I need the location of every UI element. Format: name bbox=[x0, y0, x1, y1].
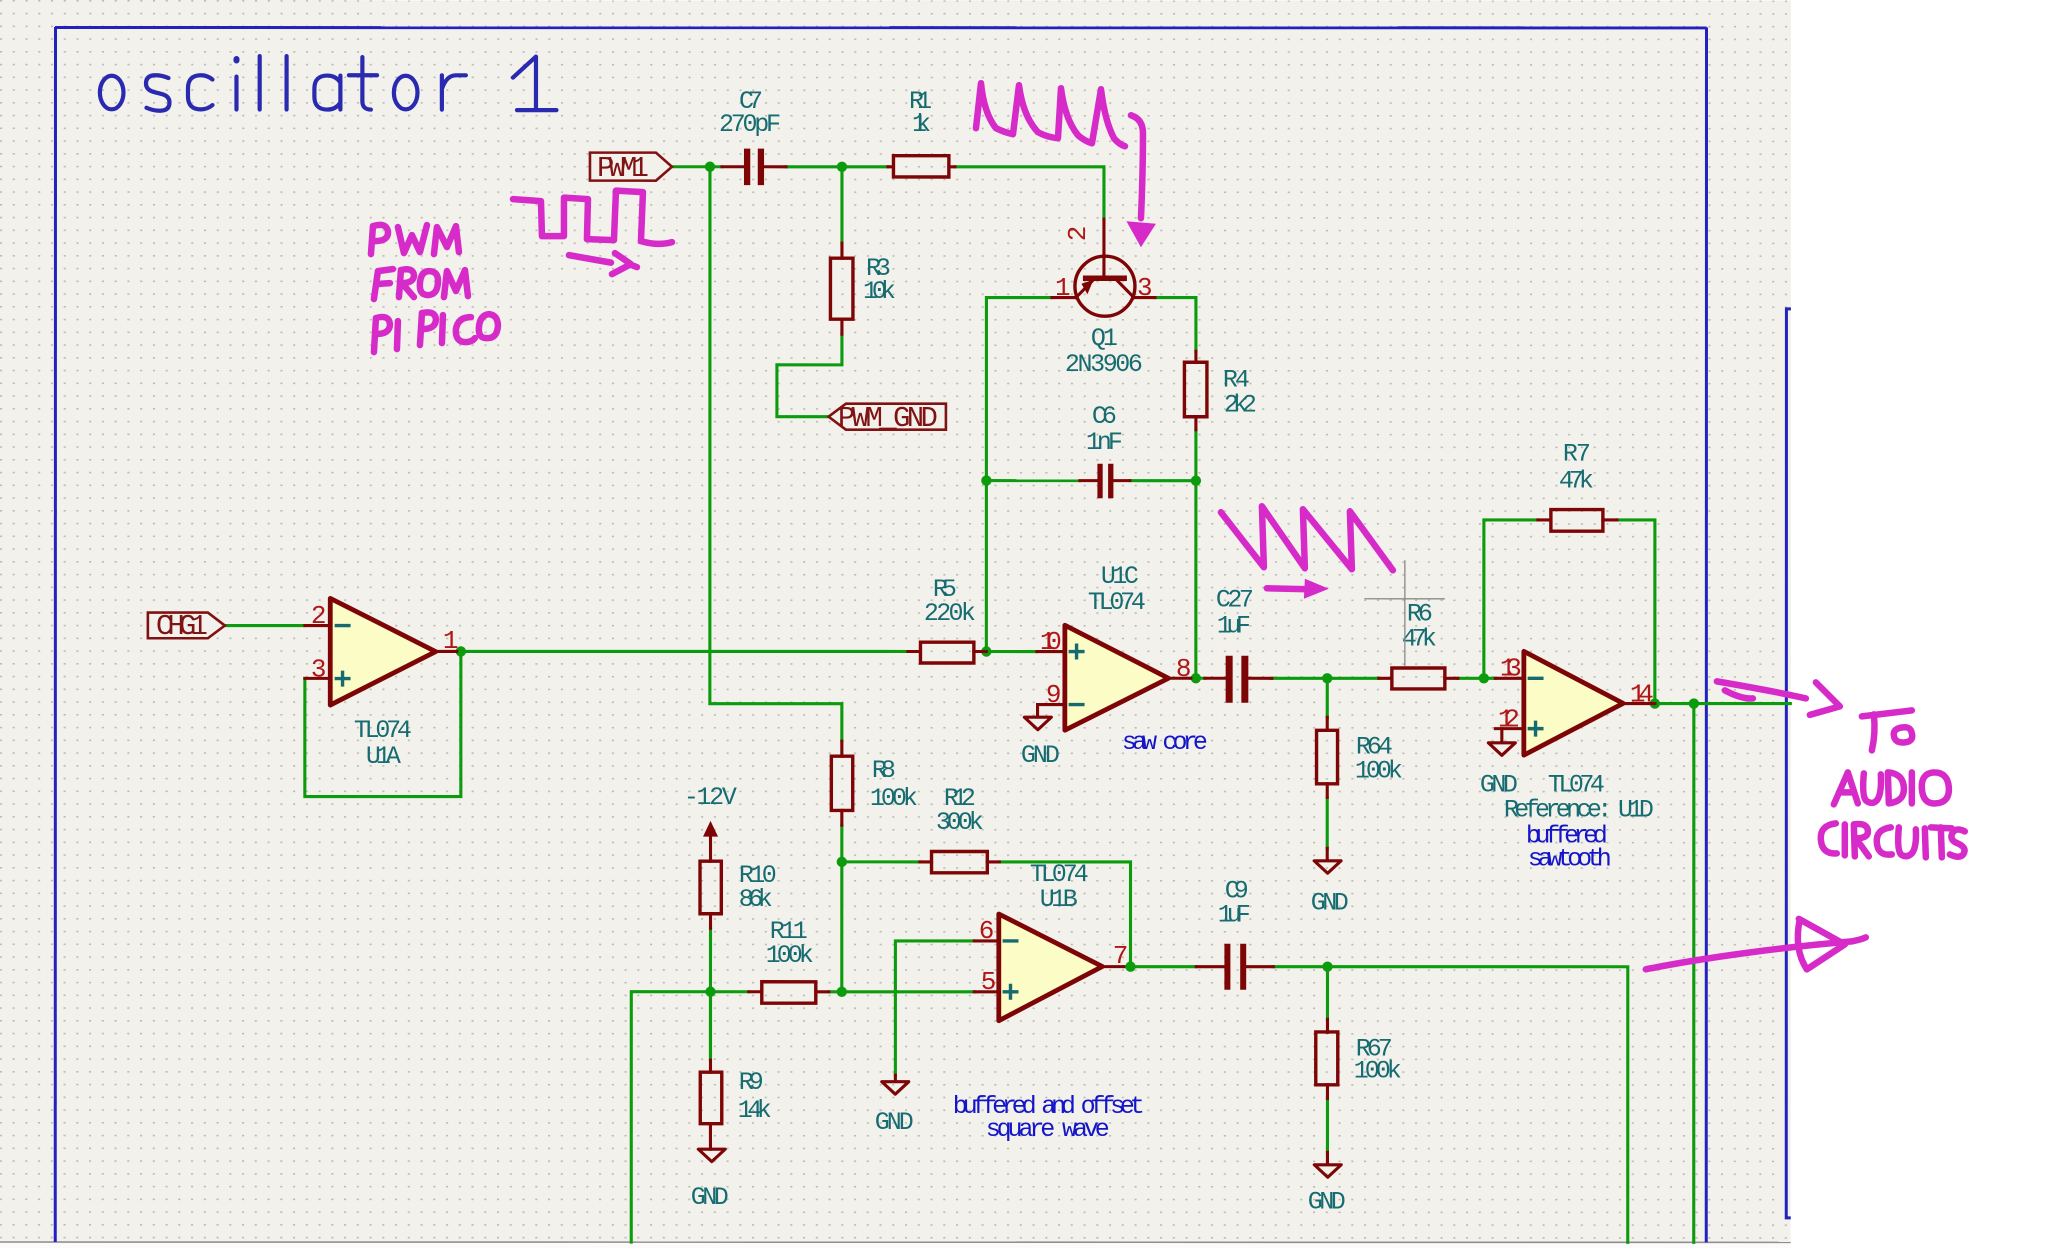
svg-text:2N3906: 2N3906 bbox=[1065, 350, 1143, 379]
op-amp U1D bbox=[1480, 651, 1655, 873]
wire -12V R10 bottom to junction bbox=[709, 928, 712, 1058]
svg-text:Q1: Q1 bbox=[1091, 324, 1118, 353]
svg-text:47k: 47k bbox=[1402, 624, 1437, 653]
wire U1C pin8 to C27 bbox=[1191, 677, 1205, 680]
resistor R12 bbox=[920, 784, 1000, 873]
resistor R6 bbox=[1379, 599, 1458, 689]
wire R1 to Q1 base corner bbox=[955, 167, 1104, 219]
annotation text PI PICO bbox=[374, 312, 498, 352]
svg-text:3: 3 bbox=[311, 655, 327, 685]
svg-text:GND: GND bbox=[691, 1183, 729, 1212]
op-amp U1A bbox=[305, 598, 459, 771]
label PWM_GND bbox=[829, 402, 946, 435]
svg-text:100k: 100k bbox=[870, 784, 918, 813]
wire R9 junction down bbox=[709, 992, 712, 1060]
node U1D pin14 bbox=[1650, 698, 1660, 708]
svg-text:CHG1: CHG1 bbox=[156, 610, 208, 643]
svg-text:47k: 47k bbox=[1559, 466, 1594, 495]
t bbox=[349, 57, 377, 110]
s bbox=[146, 75, 170, 111]
1 bbox=[513, 57, 557, 111]
annotation text To bbox=[1862, 710, 1912, 750]
wire R12 junction to R12 bbox=[842, 860, 920, 863]
wire U1D output branch down to bottom bbox=[1692, 704, 1695, 1243]
power -12V bbox=[684, 783, 737, 861]
node C6 left bbox=[981, 475, 991, 485]
annotation arrow to audio 2 bbox=[1646, 937, 1866, 969]
svg-text:C27: C27 bbox=[1216, 585, 1254, 614]
wire R8 bottom to R12 junction and down to R11 junction bbox=[840, 825, 843, 992]
label CHG1 bbox=[148, 610, 225, 643]
wire PWM1 to C7 bbox=[672, 165, 722, 168]
wire R6 to U1D pin13 junction bbox=[1458, 677, 1496, 680]
ground at U1B pin6 bbox=[875, 1075, 914, 1137]
l l bbox=[258, 56, 262, 110]
svg-text:Reference: U1D: Reference: U1D bbox=[1504, 795, 1654, 824]
wire R11 right to U1B pin5 bbox=[829, 990, 975, 993]
node output branch bbox=[1689, 698, 1699, 708]
annotation text AUDIO bbox=[1834, 772, 1949, 804]
svg-text:86k: 86k bbox=[739, 885, 773, 914]
i bbox=[234, 77, 238, 110]
svg-text:100k: 100k bbox=[1355, 756, 1403, 785]
svg-text:300k: 300k bbox=[936, 808, 984, 837]
svg-text:square wave: square wave bbox=[986, 1115, 1110, 1144]
annotation arrow down to Q1 bbox=[1131, 115, 1143, 218]
annotation square wave sketch bbox=[513, 191, 672, 244]
op-amp U1B bbox=[974, 860, 1128, 1021]
svg-text:14: 14 bbox=[1630, 679, 1654, 709]
svg-text:9: 9 bbox=[1046, 680, 1062, 710]
wire R4 bottom to C6 junction and down to U1C pin8 junction bbox=[1194, 430, 1197, 679]
wire U1B output to C9 bbox=[1124, 965, 1197, 968]
ground at U1C pin9 bbox=[1021, 705, 1060, 771]
svg-text:2: 2 bbox=[1063, 226, 1093, 242]
node U1A output bbox=[456, 646, 466, 656]
svg-text:U1A: U1A bbox=[366, 742, 401, 771]
svg-text:8: 8 bbox=[1176, 654, 1192, 684]
annotation text CIRCUITS bbox=[1821, 823, 1965, 857]
node C27/R64/R6 bbox=[1322, 673, 1332, 683]
wire junction to R3 top bbox=[840, 167, 843, 243]
resistor R7 bbox=[1538, 439, 1617, 531]
wire junction down to R64 bbox=[1326, 678, 1329, 717]
wire U1D output to right edge bbox=[1655, 702, 1791, 705]
annotation sawtooth ramps bbox=[1221, 506, 1393, 570]
wire CHG1 to U1A pin2 bbox=[225, 624, 305, 627]
ground below R67 bbox=[1308, 1152, 1346, 1216]
annotation spiky wave above R1 bbox=[976, 83, 1125, 146]
node R6/R7/U1D pin13 bbox=[1479, 673, 1489, 683]
svg-text:R8: R8 bbox=[872, 756, 896, 785]
wire C7 to R1 bbox=[786, 165, 888, 168]
annotation arrow right below sawtooth bbox=[1267, 588, 1308, 589]
svg-text:14k: 14k bbox=[738, 1096, 772, 1125]
wire Q1 pin1 loop left down to R5 junction bbox=[986, 298, 1052, 652]
resistor R5 bbox=[908, 575, 987, 663]
wire R12 right down to U1B output bbox=[999, 862, 1130, 967]
svg-text:GND: GND bbox=[1311, 888, 1349, 917]
svg-text:5: 5 bbox=[981, 967, 997, 997]
capacitor C9 bbox=[1196, 876, 1273, 990]
resistor R3 bbox=[830, 243, 896, 334]
svg-text:R9: R9 bbox=[739, 1068, 764, 1097]
resistor R10 bbox=[700, 861, 777, 928]
svg-text:2k2: 2k2 bbox=[1224, 390, 1257, 419]
wire Q1 pin3 to R4 top bbox=[1155, 298, 1196, 352]
capacitor C27 bbox=[1205, 585, 1272, 703]
node R10/R11/R9 bbox=[705, 987, 715, 997]
op-amp U1C bbox=[1037, 562, 1192, 730]
wire PWM1 junction down long vertical to R8 bbox=[710, 167, 842, 741]
node C7/R1/R3 bbox=[837, 162, 847, 172]
wire R64 bottom to GND bbox=[1326, 797, 1329, 848]
node U1B out/R12 bbox=[1125, 961, 1135, 971]
svg-text:100k: 100k bbox=[1354, 1056, 1402, 1085]
svg-text:saw core: saw core bbox=[1122, 728, 1208, 757]
wire C6 left to Q1 loop vertical bbox=[986, 479, 1080, 482]
node R8/R12 bbox=[837, 857, 847, 867]
svg-text:C6: C6 bbox=[1092, 402, 1117, 431]
resistor R1 bbox=[888, 87, 955, 177]
svg-text:6: 6 bbox=[979, 916, 995, 946]
svg-text:PWM_GND: PWM_GND bbox=[838, 402, 938, 435]
ground below R9 bbox=[691, 1149, 729, 1212]
svg-text:7: 7 bbox=[1113, 941, 1129, 971]
svg-text:270pF: 270pF bbox=[719, 110, 781, 139]
svg-text:1uF: 1uF bbox=[1217, 611, 1251, 640]
svg-text:2: 2 bbox=[311, 601, 327, 631]
svg-text:10k: 10k bbox=[863, 277, 896, 306]
wire feedback up through R7 bbox=[1484, 520, 1538, 678]
svg-text:GND: GND bbox=[875, 1108, 914, 1137]
wire U1B pin6 to GND bbox=[895, 941, 974, 1075]
node C9/R67 bbox=[1322, 961, 1332, 971]
right hierarchical bracket line bbox=[1786, 309, 1791, 1218]
capacitor C6 bbox=[1080, 402, 1130, 498]
annotation text FROM bbox=[374, 269, 468, 299]
node R5/U1C pin10 bbox=[981, 646, 991, 656]
annotation small arrow right bbox=[569, 255, 611, 263]
resistor R64 bbox=[1317, 717, 1403, 797]
title: oscillator 1 (stroke font) bbox=[100, 56, 557, 111]
wire R67 junction down bbox=[1326, 967, 1329, 1020]
wire R67 bottom to GND bbox=[1326, 1098, 1329, 1152]
wire C27 to junction to R6 bbox=[1272, 677, 1379, 680]
crosshair cursor bbox=[1364, 560, 1445, 666]
annotation text PWM bbox=[371, 225, 459, 254]
wire R3 bottom jog to PWM_GND bbox=[777, 334, 842, 417]
svg-text:U1C: U1C bbox=[1101, 562, 1139, 591]
svg-text:1: 1 bbox=[443, 626, 459, 656]
svg-text:10: 10 bbox=[1040, 627, 1062, 657]
svg-text:100k: 100k bbox=[766, 941, 814, 970]
a bbox=[314, 76, 340, 110]
svg-text:1uF: 1uF bbox=[1218, 900, 1251, 929]
svg-text:13: 13 bbox=[1500, 653, 1522, 683]
sheet frame border bbox=[55, 27, 1707, 1242]
svg-text:TL074: TL074 bbox=[1088, 588, 1146, 617]
node R11/R8 branch bbox=[837, 987, 847, 997]
svg-text:GND: GND bbox=[1308, 1187, 1346, 1216]
svg-text:GND: GND bbox=[1021, 741, 1060, 770]
label PWM1 bbox=[590, 152, 672, 185]
svg-text:1nF: 1nF bbox=[1086, 428, 1123, 457]
wire U1A pin3 feedback loop bbox=[305, 651, 461, 796]
resistor R11 bbox=[749, 917, 829, 1003]
node C6 right/R4 bbox=[1191, 475, 1201, 485]
r bbox=[442, 75, 466, 109]
resistor R8 bbox=[831, 741, 918, 825]
node PWM1/C7 bbox=[705, 162, 715, 172]
resistor R67 bbox=[1316, 1019, 1402, 1098]
capacitor C7 bbox=[719, 87, 786, 185]
wire R5 to U1C pin10 bbox=[986, 650, 1036, 653]
resistor R4 bbox=[1184, 351, 1257, 430]
c bbox=[188, 75, 213, 109]
svg-text:-12V: -12V bbox=[684, 783, 737, 812]
transistor Q1 2N3906 bbox=[1052, 219, 1155, 379]
annotation arrow to audio 1 bbox=[1717, 681, 1806, 698]
svg-text:R7: R7 bbox=[1563, 439, 1591, 468]
ground at U1D pin12 bbox=[1488, 729, 1515, 756]
svg-text:220k: 220k bbox=[924, 599, 976, 628]
svg-text:U1B: U1B bbox=[1040, 885, 1078, 914]
resistor R9 bbox=[700, 1060, 772, 1149]
ground below R64 bbox=[1311, 848, 1349, 917]
node U1C pin8 bbox=[1191, 673, 1201, 683]
svg-text:sawtooth: sawtooth bbox=[1528, 844, 1612, 873]
svg-text:1k: 1k bbox=[912, 110, 931, 139]
o bbox=[100, 76, 124, 110]
o bbox=[394, 76, 418, 110]
wire C6 right to R4 vertical bbox=[1130, 479, 1196, 482]
svg-text:PWM1: PWM1 bbox=[597, 152, 649, 185]
svg-text:1: 1 bbox=[1055, 273, 1071, 303]
wire C9 right to R67 junction then right and down to bottom bbox=[1273, 967, 1628, 1243]
wire left L corner up to R11 row bbox=[631, 992, 749, 1242]
svg-text:3: 3 bbox=[1137, 273, 1153, 303]
wire U1A output to R5 bbox=[457, 650, 908, 653]
svg-text:TL074: TL074 bbox=[354, 716, 412, 745]
